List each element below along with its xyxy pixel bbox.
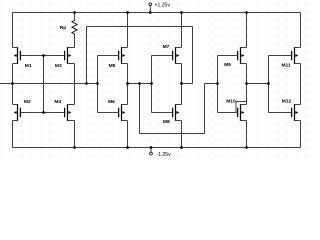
wire node bus y83 center: [128, 83, 152, 85]
junction at (127.5,83.5): [126, 82, 129, 85]
power terminal -1.25v: [150, 148, 172, 159]
junction at (127.5,12.5): [126, 11, 129, 14]
wire Rp top stub: [74, 13, 76, 20]
svg-text:M7: M7: [163, 44, 170, 50]
transistor M7: [152, 44, 182, 64]
wire M1-M3 gate line: [21, 55, 66, 57]
wire gate column x43: [43, 56, 45, 113]
svg-text:M8: M8: [163, 119, 170, 125]
transistor M6: [98, 99, 128, 121]
wire top +1.25v rail: [13, 12, 301, 14]
wire M7-M8 gate column: [151, 56, 153, 113]
transistor M11: [269, 47, 301, 69]
wire M10 diode jog horizontal: [236, 101, 247, 103]
resistor Rp: [60, 20, 77, 36]
transistor M4: [44, 99, 75, 121]
junction at (127.5,147.5): [126, 146, 129, 149]
wire M12 source column: [300, 121, 302, 148]
wire input line y83: [0, 83, 98, 85]
svg-text:M3: M3: [55, 63, 62, 69]
svg-text:M4: M4: [54, 99, 61, 105]
wire x192.5 riser: [192, 27, 194, 84]
wire M4 source to rail: [74, 121, 76, 148]
wire M9 source / M10 drain column: [246, 64, 248, 105]
wire x204.5 riser: [204, 84, 206, 134]
transistor M12: [269, 98, 301, 121]
svg-text:M1: M1: [25, 63, 32, 69]
wire M5-M6 gate column: [97, 56, 99, 113]
svg-text:Rp: Rp: [60, 25, 67, 31]
junction at (217.5,83.5): [216, 82, 219, 85]
svg-text:M12: M12: [282, 98, 292, 104]
wire y83 to M9-M10 gates: [205, 83, 218, 85]
wire x86 riser: [86, 27, 88, 84]
wire M7 source / M8 drain column: [181, 64, 183, 105]
wire M3 source / M4 drain column: [74, 64, 76, 105]
wire M5 source / M6 drain column: [127, 64, 129, 105]
transistor M1: [13, 47, 44, 69]
junction at (74.5,147.5): [73, 146, 76, 149]
wire M11-M12 gate column: [268, 56, 270, 113]
junction at (74.5,12.5): [73, 11, 76, 14]
junction at (86.5,83.5): [85, 82, 88, 85]
wire M11 source / M12 drain column: [300, 64, 302, 105]
junction at (97.5,83.5): [96, 82, 99, 85]
svg-text:M5: M5: [109, 63, 116, 69]
wire M1 drain column: [12, 13, 14, 48]
wire M1 source / M2 drain column: [12, 64, 14, 105]
transistor M9: [218, 47, 247, 68]
wire M11 drain column: [300, 13, 302, 48]
junction at (268.5,83.5): [267, 82, 270, 85]
wire M6 source to rail: [127, 121, 129, 148]
junction at (181.5,83.5): [180, 82, 183, 85]
junction at (246.5,147.5): [245, 146, 248, 149]
svg-text:M11: M11: [281, 63, 291, 69]
junction at (181.5,12.5): [180, 11, 183, 14]
wire M8 source to rail: [181, 121, 183, 148]
junction at (150.3,12.5): [149, 11, 152, 14]
svg-text:M9: M9: [224, 62, 231, 68]
junction at (43.5,112.5): [42, 111, 45, 114]
junction at (43.5,55.5): [42, 54, 45, 57]
wire M7 drain to rail: [181, 13, 183, 48]
wire top bus y26.75: [87, 26, 193, 28]
wire M9 drain to rail: [246, 13, 248, 48]
wire Rp to M3 drain: [74, 35, 76, 48]
wire M2 source column: [12, 121, 14, 148]
junction at (12.5,83.5): [11, 82, 14, 85]
transistor M5: [98, 47, 128, 69]
wire bottom -1.25v rail: [13, 147, 301, 149]
power terminal +1.25v: [149, 2, 170, 12]
junction at (151,147.5): [150, 146, 153, 149]
svg-text:-1.25v: -1.25v: [157, 152, 172, 158]
wire M7S-M8D to x192.5: [182, 83, 193, 85]
wire bottom detour y133: [140, 133, 205, 135]
transistor M3: [44, 47, 75, 69]
junction at (139.5,83.5): [138, 82, 141, 85]
wire M10 diode jog vertical: [235, 102, 237, 113]
junction at (246.5,83.5): [245, 82, 248, 85]
svg-text:M10: M10: [226, 99, 236, 105]
wire M9S node to M11-M12 gates: [247, 83, 269, 85]
wire M10 source to rail: [246, 121, 248, 148]
svg-text:M6: M6: [108, 99, 115, 105]
wire M5 drain to rail: [127, 13, 129, 48]
wire M9-M10 gate column: [217, 56, 219, 113]
svg-text:M2: M2: [24, 99, 31, 105]
junction at (151.5,83.5): [150, 82, 153, 85]
wire x139 drop: [139, 84, 141, 134]
transistor M10: [218, 99, 247, 121]
wire M2-M4 gate line: [21, 112, 66, 114]
transistor M8: [152, 104, 182, 125]
transistor M2: [13, 99, 44, 121]
junction at (246.5,12.5): [245, 11, 248, 14]
svg-text:+1.25v: +1.25v: [155, 2, 171, 8]
junction at (181.5,147.5): [180, 146, 183, 149]
